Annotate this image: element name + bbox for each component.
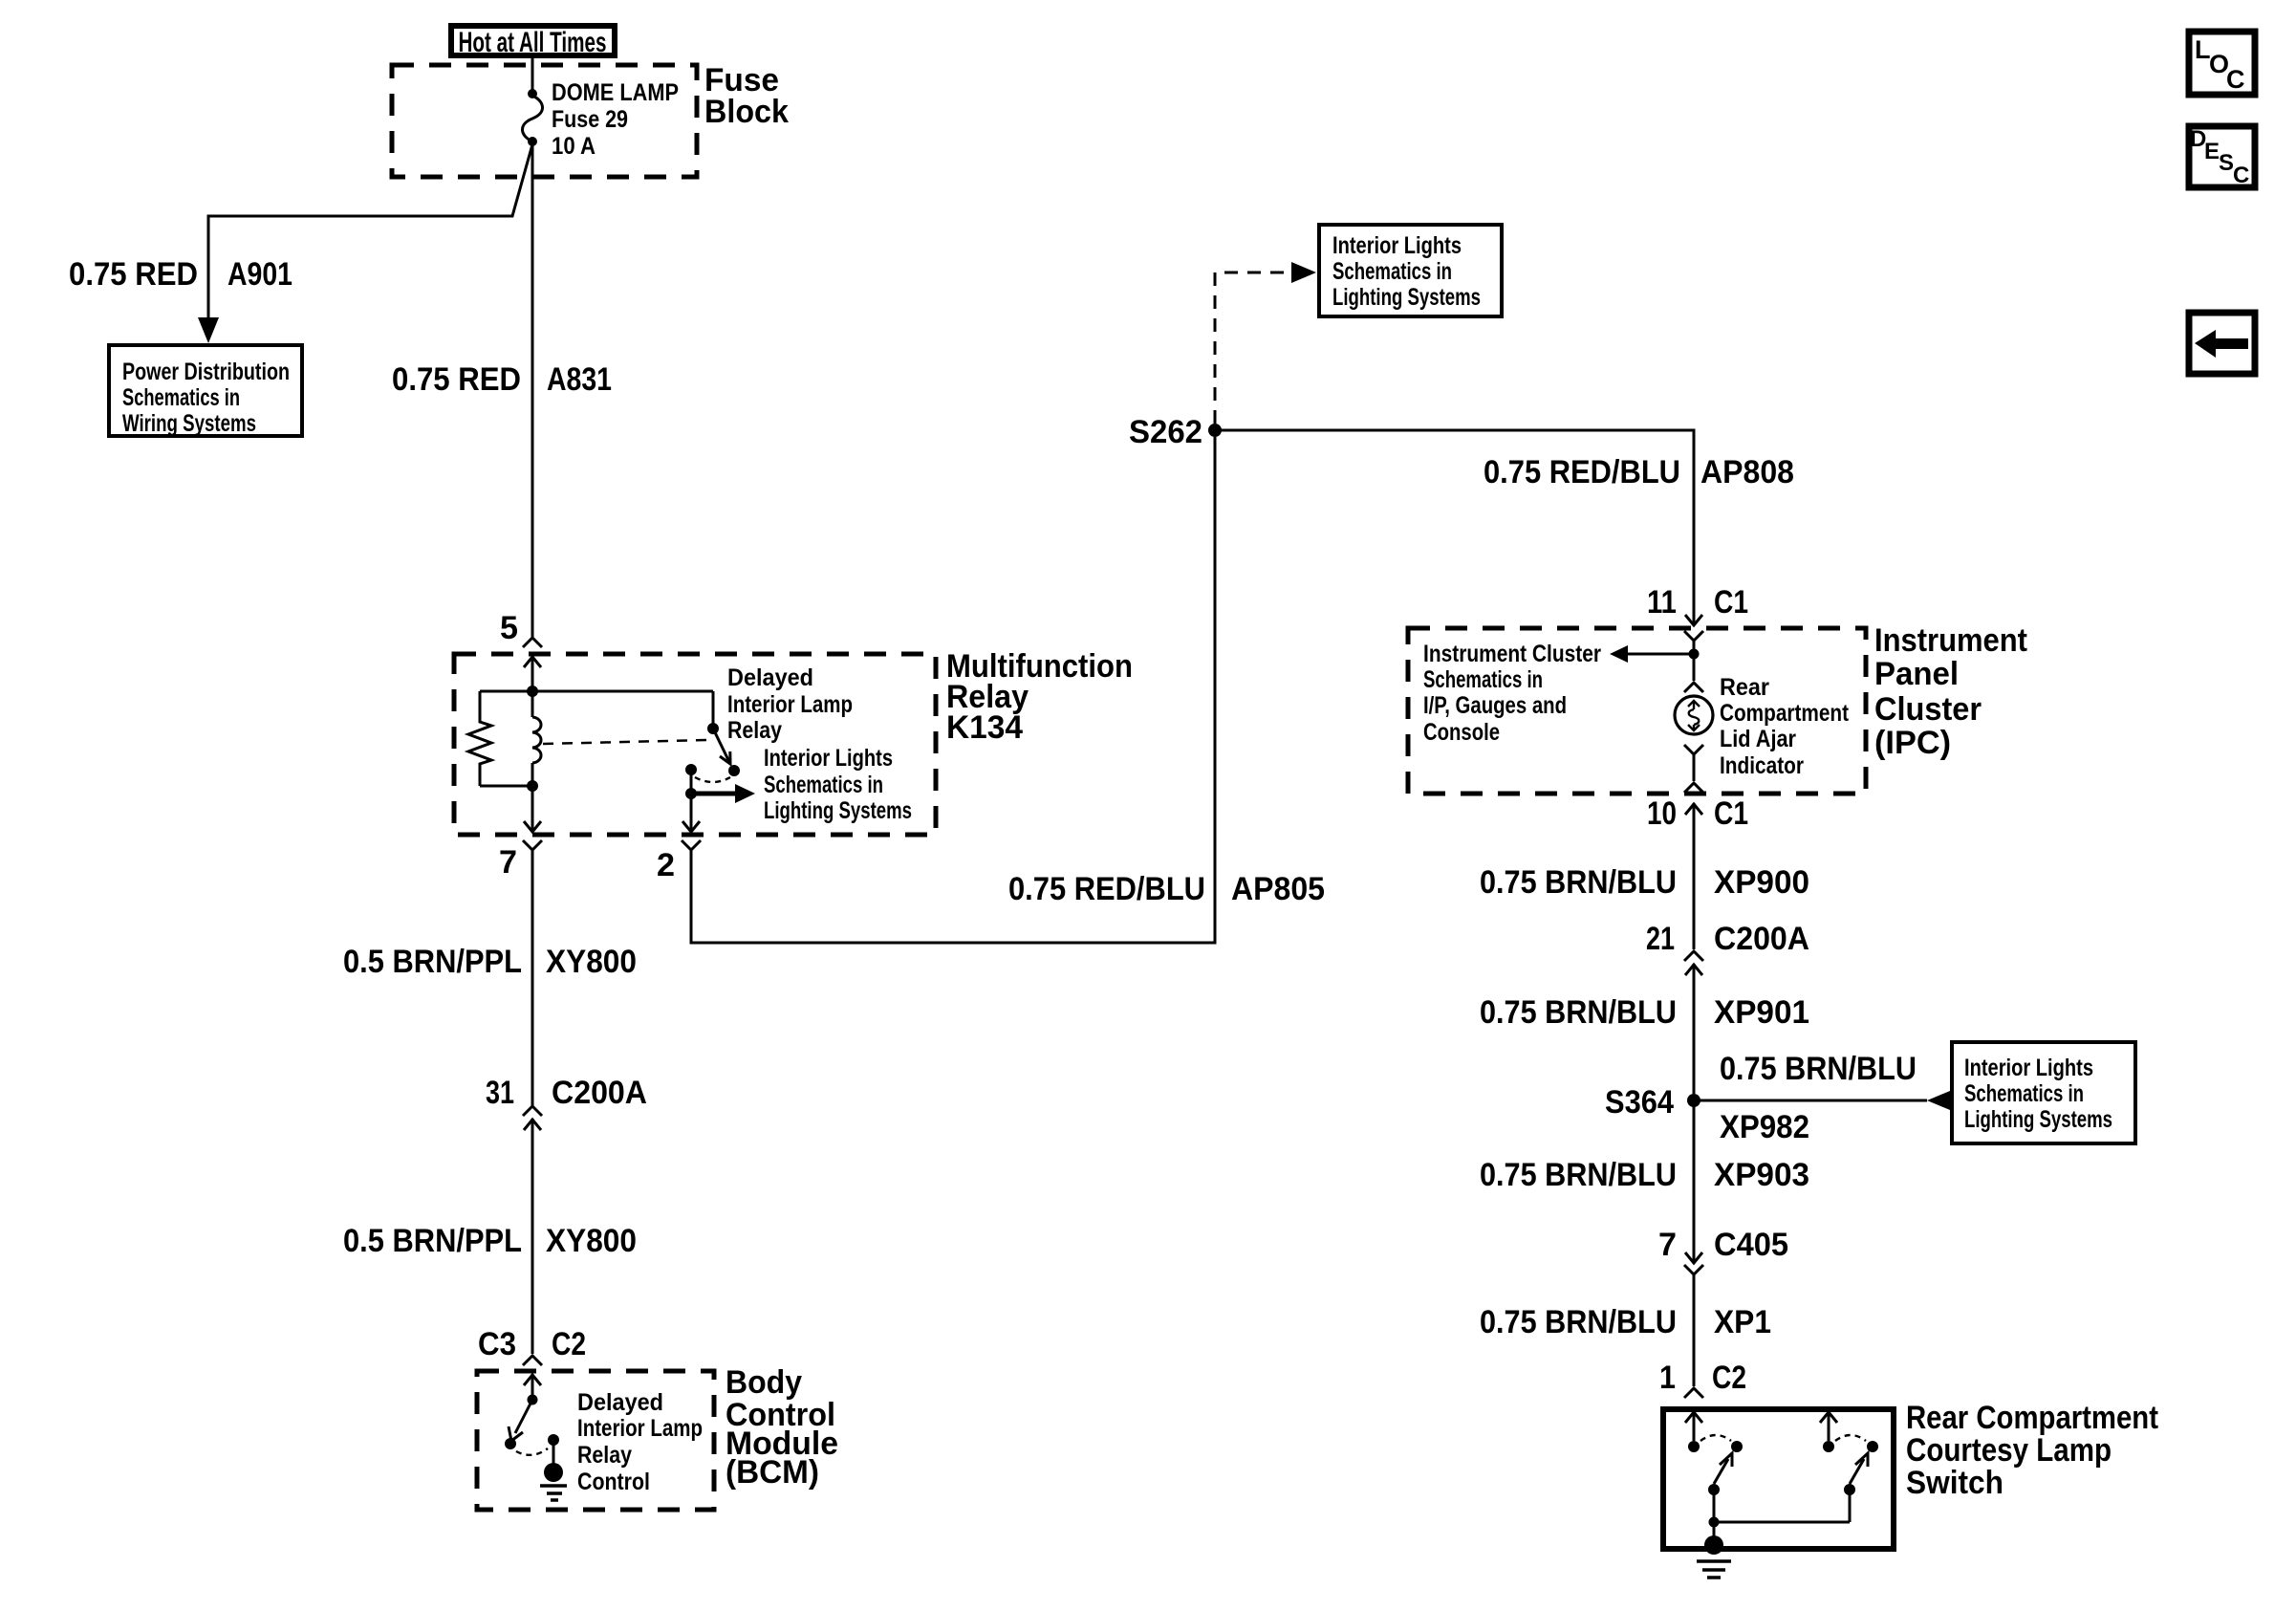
dashed travel arc <box>516 1448 548 1455</box>
svg-text:Block: Block <box>704 94 789 130</box>
svg-text:0.75 RED/BLU: 0.75 RED/BLU <box>1484 454 1680 490</box>
svg-text:Interior Lamp: Interior Lamp <box>727 691 853 718</box>
right switch pole <box>1820 1412 1837 1423</box>
svg-text:Relay: Relay <box>727 717 782 744</box>
back-arrow nav box <box>2189 313 2255 374</box>
wire: Hot at All Times to fuse <box>531 58 534 94</box>
ground inside BCM <box>552 1440 555 1466</box>
body control module BCM (dashed box) <box>477 1371 714 1510</box>
svg-text:AP805: AP805 <box>1231 871 1325 907</box>
arrowhead on BCM switch arm <box>509 1426 523 1441</box>
dashed travel arc <box>695 777 730 782</box>
svg-text:C1: C1 <box>1714 795 1748 832</box>
svg-text:0.75 BRN/BLU: 0.75 BRN/BLU <box>1720 1051 1917 1087</box>
svg-text:0.75 RED: 0.75 RED <box>69 256 198 293</box>
wire AP808: S262 to IPC pin 11 <box>1215 430 1694 624</box>
svg-text:XY800: XY800 <box>546 1223 637 1259</box>
node: coil top junction <box>527 686 538 697</box>
svg-text:Rear: Rear <box>1720 674 1769 701</box>
svg-text:0.75 BRN/BLU: 0.75 BRN/BLU <box>1480 1157 1677 1193</box>
rear compartment lid ajar indicator lamp <box>1693 654 1696 681</box>
svg-text:5: 5 <box>500 610 518 646</box>
BCM switch fixed contact <box>548 1434 559 1446</box>
svg-text:XP901: XP901 <box>1714 994 1809 1031</box>
svg-text:C: C <box>2226 65 2245 94</box>
dashed travel arc (left pole) <box>1700 1435 1731 1441</box>
svg-text:Console: Console <box>1423 719 1500 746</box>
svg-text:XP982: XP982 <box>1720 1109 1809 1145</box>
wire AP805 from relay pin 2 <box>691 437 1215 943</box>
arrowhead on left arm <box>1720 1453 1732 1467</box>
arrow to Instrument Cluster schematics <box>1627 653 1694 656</box>
svg-text:Lighting Systems: Lighting Systems <box>1964 1106 2112 1133</box>
svg-text:Interior Lights: Interior Lights <box>1964 1055 2093 1081</box>
svg-text:Hot at All Times: Hot at All Times <box>459 27 607 58</box>
svg-text:E: E <box>2204 139 2220 164</box>
svg-text:Interior Lights: Interior Lights <box>1332 232 1462 259</box>
svg-text:C2: C2 <box>552 1326 586 1362</box>
relay coil winding <box>531 691 534 717</box>
svg-text:S262: S262 <box>1129 414 1202 450</box>
bold arrow to Interior Lights schematics <box>691 792 738 796</box>
svg-text:Power Distribution: Power Distribution <box>122 359 290 385</box>
relay pin 2 exit <box>690 794 693 831</box>
ground at switch <box>1713 1522 1716 1539</box>
reference box: Power Distribution Schematics in Wiring Systems <box>109 345 302 436</box>
svg-text:K134: K134 <box>946 709 1023 746</box>
svg-text:Lighting Systems: Lighting Systems <box>1332 284 1481 311</box>
svg-text:11: 11 <box>1647 584 1677 620</box>
svg-text:S364: S364 <box>1605 1084 1674 1121</box>
reference box: Interior Lights Schematics in Lighting Systems (right) <box>1952 1042 2135 1143</box>
svg-text:2: 2 <box>657 847 675 883</box>
svg-text:Instrument: Instrument <box>1874 622 2027 659</box>
arrowhead at Interior Lights box (right) <box>1927 1091 1950 1110</box>
instrument panel cluster IPC (dashed box) <box>1408 628 1866 794</box>
svg-text:Indicator: Indicator <box>1720 752 1804 779</box>
relay switch arm (armature) <box>712 691 715 724</box>
svg-text:AP808: AP808 <box>1700 454 1794 490</box>
svg-text:10 A: 10 A <box>552 133 596 160</box>
svg-text:XP900: XP900 <box>1714 864 1809 901</box>
svg-text:Switch: Switch <box>1906 1465 2004 1501</box>
switch moving-contact end <box>728 765 740 776</box>
left switch pole <box>1685 1412 1702 1423</box>
reference box: Interior Lights Schematics in Lighting Systems (top) <box>1319 225 1502 316</box>
svg-text:Control: Control <box>577 1469 650 1495</box>
lamp bottom lead <box>1684 745 1703 754</box>
svg-text:0.75 BRN/BLU: 0.75 BRN/BLU <box>1480 1304 1677 1340</box>
connector symbol at BCM entry <box>523 1356 542 1365</box>
node: switch common junction <box>1709 1517 1720 1528</box>
connector symbol at relay pin 5 <box>523 638 542 647</box>
svg-text:7: 7 <box>499 844 517 881</box>
svg-text:0.75 BRN/BLU: 0.75 BRN/BLU <box>1480 994 1677 1031</box>
svg-text:Interior Lights: Interior Lights <box>764 745 893 772</box>
svg-text:C2: C2 <box>1712 1360 1746 1396</box>
svg-text:1: 1 <box>1659 1360 1676 1396</box>
switch common rail <box>1713 1490 1716 1522</box>
relay resistor (parallel) <box>468 691 491 786</box>
in-line connector C405 symbol <box>1685 1252 1702 1263</box>
in-line connector C200A symbol <box>523 1106 542 1116</box>
svg-text:10: 10 <box>1647 795 1677 832</box>
splice S262 <box>1208 424 1222 437</box>
in-line connector C200A symbol <box>1684 951 1703 961</box>
wire XP903 <box>1693 1100 1696 1262</box>
node: pin-2 branch junction <box>685 788 697 799</box>
wire XP1 <box>1693 1274 1696 1386</box>
svg-text:Body: Body <box>726 1364 802 1401</box>
branch wire XP982 to Interior Lights schematics <box>1694 1099 1927 1102</box>
svg-text:Interior Lamp: Interior Lamp <box>577 1415 703 1442</box>
LOC nav box <box>2189 32 2255 95</box>
splice S364 <box>1687 1094 1700 1107</box>
svg-text:C200A: C200A <box>552 1075 647 1111</box>
wire A831: fuse down to relay pin 5 <box>531 144 534 637</box>
svg-text:(IPC): (IPC) <box>1874 725 1951 761</box>
svg-text:Schematics in: Schematics in <box>1964 1080 2084 1107</box>
svg-text:Courtesy Lamp: Courtesy Lamp <box>1906 1432 2112 1469</box>
left pole arm <box>1714 1459 1728 1484</box>
BCM relay-control switch <box>528 1395 538 1405</box>
wire from contact to pin 2 junction <box>690 770 693 794</box>
wire A901: fuse to power distribution reference <box>208 144 532 317</box>
svg-text:(BCM): (BCM) <box>726 1454 819 1491</box>
relay pin 7 exit <box>531 786 534 831</box>
fuse block (dashed box) <box>392 65 697 177</box>
svg-text:0.5 BRN/PPL: 0.5 BRN/PPL <box>343 944 522 980</box>
power label box "Hot at All Times" <box>451 26 615 55</box>
DESC nav box <box>2189 126 2255 187</box>
svg-text:Rear Compartment: Rear Compartment <box>1906 1400 2158 1436</box>
svg-text:Cluster: Cluster <box>1874 691 1982 728</box>
dashed travel arc (right pole) <box>1835 1435 1866 1441</box>
relay bottom rail <box>480 785 532 788</box>
svg-text:Compartment: Compartment <box>1720 700 1850 727</box>
node: IPC internal junction <box>1689 649 1700 660</box>
svg-text:Panel: Panel <box>1874 656 1959 692</box>
svg-text:0.75 RED/BLU: 0.75 RED/BLU <box>1008 871 1205 907</box>
svg-text:Lid Ajar: Lid Ajar <box>1720 726 1796 752</box>
relay NO contact <box>685 764 697 775</box>
connector symbol inside IPC top <box>1684 631 1703 641</box>
svg-text:A901: A901 <box>227 256 292 293</box>
svg-text:C1: C1 <box>1714 584 1748 620</box>
svg-text:Schematics in: Schematics in <box>764 772 883 798</box>
dashed reference link from S262 <box>1215 272 1289 424</box>
multifunction relay K134 (dashed box) <box>454 654 936 835</box>
svg-text:C: C <box>2233 163 2249 188</box>
switch pivot contact <box>707 723 719 734</box>
svg-text:Wiring Systems: Wiring Systems <box>122 410 256 437</box>
node: coil bottom junction <box>527 780 538 792</box>
arrowhead into Interior Lights box <box>1291 262 1316 283</box>
connector symbol IPC bottom exit <box>1684 783 1703 793</box>
svg-text:Fuse 29: Fuse 29 <box>552 106 628 133</box>
svg-text:Delayed: Delayed <box>577 1389 663 1416</box>
svg-text:0.75 BRN/BLU: 0.75 BRN/BLU <box>1480 864 1677 901</box>
svg-text:Instrument Cluster: Instrument Cluster <box>1423 641 1601 667</box>
wire XY800 lower segment <box>531 1119 534 1354</box>
svg-text:XY800: XY800 <box>546 944 637 980</box>
wire XP900 <box>1693 803 1696 949</box>
arrowhead on switch arm <box>720 751 730 764</box>
wire XP901 <box>1693 964 1696 1094</box>
arrowhead into Power Distribution box <box>198 317 219 343</box>
arrowhead on right arm <box>1855 1453 1868 1467</box>
svg-text:0.75 RED: 0.75 RED <box>392 361 521 398</box>
svg-text:C200A: C200A <box>1714 921 1809 957</box>
wire XY800 upper segment <box>531 850 534 1106</box>
svg-text:C405: C405 <box>1714 1227 1788 1263</box>
relay top rail <box>480 690 713 693</box>
svg-text:Delayed: Delayed <box>727 664 813 691</box>
svg-text:21: 21 <box>1646 921 1675 957</box>
connector symbol at switch entry <box>1684 1388 1703 1398</box>
svg-text:XP1: XP1 <box>1714 1304 1771 1340</box>
dashed actuation link coil to armature <box>543 740 707 744</box>
right pole arm <box>1850 1459 1864 1484</box>
svg-text:Lighting Systems: Lighting Systems <box>764 797 912 824</box>
svg-text:31: 31 <box>486 1075 514 1111</box>
rear compartment courtesy lamp switch (box) <box>1663 1409 1894 1549</box>
svg-text:0.5 BRN/PPL: 0.5 BRN/PPL <box>343 1223 522 1259</box>
svg-text:7: 7 <box>1658 1227 1677 1263</box>
svg-text:Schematics in: Schematics in <box>1332 258 1452 285</box>
fuse F29 DOME LAMP 10 A <box>528 89 537 98</box>
svg-text:C3: C3 <box>478 1326 516 1362</box>
svg-text:XP903: XP903 <box>1714 1157 1809 1193</box>
svg-text:Relay: Relay <box>577 1442 632 1469</box>
svg-text:Schematics in: Schematics in <box>122 384 240 411</box>
svg-text:DOME LAMP: DOME LAMP <box>552 79 679 106</box>
svg-text:I/P, Gauges and: I/P, Gauges and <box>1423 692 1567 719</box>
svg-text:A831: A831 <box>547 361 612 398</box>
svg-text:S: S <box>2219 150 2234 176</box>
svg-text:Schematics in: Schematics in <box>1423 666 1543 693</box>
